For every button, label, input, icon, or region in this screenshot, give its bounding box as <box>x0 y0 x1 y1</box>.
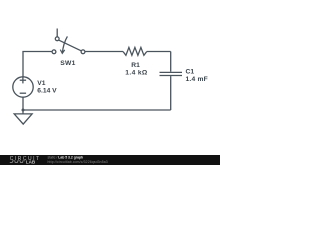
svg-text:V1: V1 <box>37 80 45 87</box>
svg-text:C1: C1 <box>186 68 195 75</box>
svg-text:LAB: LAB <box>26 160 36 165</box>
svg-text:R1: R1 <box>131 62 140 69</box>
svg-text:6.14 V: 6.14 V <box>37 88 57 95</box>
svg-text:SW1: SW1 <box>60 60 75 67</box>
svg-text:http://circuitlab.com/c/3226qs: http://circuitlab.com/c/3226qsd3n5a3 <box>48 160 108 164</box>
svg-text:1.4 kΩ: 1.4 kΩ <box>125 69 148 76</box>
svg-text:1.4 mF: 1.4 mF <box>186 76 208 83</box>
